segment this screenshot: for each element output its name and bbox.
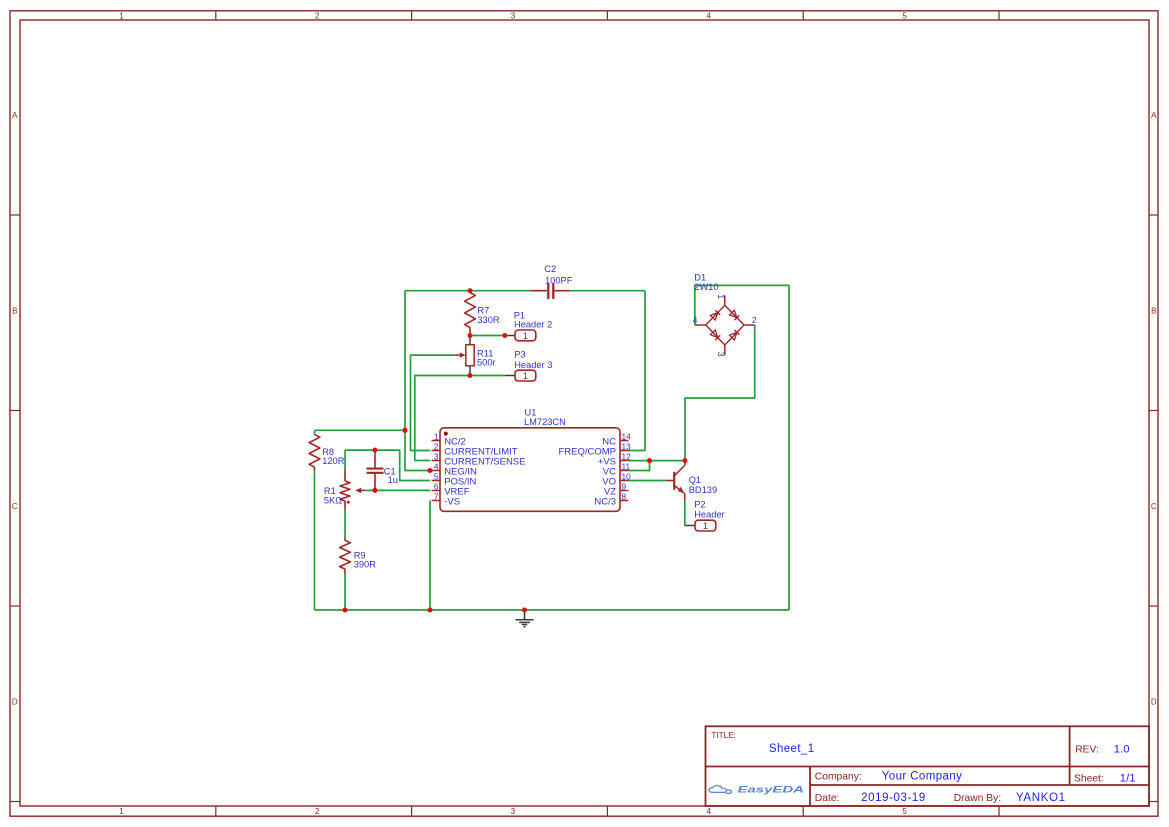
wire R1 top and C1 top to U1 pin 5 POS/IN	[345, 450, 430, 480]
IC U1 LM723CN body	[440, 408, 620, 512]
U1 pin 3 CURRENT/SENSE	[432, 451, 526, 467]
U1 pin 9 VZ	[604, 481, 629, 497]
svg-text:Date:: Date:	[815, 793, 840, 804]
resistor R7 330R	[465, 291, 500, 336]
svg-text:Drawn By:: Drawn By:	[954, 793, 1002, 804]
svg-text:13: 13	[622, 441, 632, 451]
wire U1 pin 13 FREQ/COMP riser	[629, 291, 646, 451]
svg-text:1: 1	[703, 521, 708, 531]
junction at VC riser	[647, 458, 652, 463]
svg-text:Sheet_1: Sheet_1	[769, 743, 815, 755]
resistor R9 390R	[340, 538, 377, 574]
svg-text:3: 3	[716, 352, 726, 357]
svg-text:330R: 330R	[477, 315, 500, 325]
trimmer resistor R11 500r	[456, 336, 496, 376]
svg-text:P3: P3	[514, 350, 525, 360]
svg-text:D1: D1	[694, 273, 706, 283]
svg-text:NC/3: NC/3	[594, 496, 616, 507]
svg-text:1: 1	[119, 807, 124, 816]
header P2 Header	[685, 500, 725, 532]
svg-text:1.0: 1.0	[1114, 744, 1130, 756]
wire left rail below R8	[314, 471, 316, 611]
U1 pin 10 VO	[602, 471, 631, 487]
U1 pin 14 NC	[602, 431, 631, 447]
svg-text:5: 5	[902, 807, 907, 816]
svg-text:Your Company: Your Company	[882, 771, 962, 783]
svg-text:A: A	[1151, 111, 1157, 120]
svg-text:EasyEDA: EasyEDA	[738, 784, 805, 795]
wire R1 wiper to U1 pin 6 VREF	[364, 489, 430, 491]
svg-text:4: 4	[434, 461, 439, 471]
wire U1 pin 12 +VS to collector node	[629, 460, 686, 462]
svg-text:100PF: 100PF	[545, 276, 573, 286]
svg-text:2: 2	[315, 807, 320, 816]
svg-text:C: C	[1151, 502, 1157, 511]
wire top rail right segment	[570, 290, 645, 292]
svg-text:4: 4	[693, 315, 698, 325]
junction at P1 pin	[502, 333, 507, 338]
svg-text:1: 1	[119, 12, 124, 21]
svg-text:120R: 120R	[322, 456, 345, 466]
U1 pin 4 NEG/IN	[432, 461, 478, 477]
wire bottom ground rail	[315, 609, 790, 611]
title block Drawn By	[954, 791, 1066, 804]
svg-text:3: 3	[511, 12, 516, 21]
svg-text:A: A	[12, 111, 18, 120]
svg-text:Q1: Q1	[689, 475, 701, 485]
wire R7 bottom to P1	[470, 335, 505, 337]
svg-text:Header 3: Header 3	[514, 360, 552, 370]
svg-text:12: 12	[622, 451, 632, 461]
wire R1 bottom to R9 top	[344, 510, 346, 539]
wire R11 bottom to P3	[470, 375, 505, 377]
svg-text:BD139: BD139	[689, 485, 717, 495]
svg-text:5: 5	[434, 471, 439, 481]
svg-text:1: 1	[434, 431, 439, 441]
wire Q1 emitter to P2	[684, 501, 686, 526]
svg-text:D: D	[1151, 698, 1157, 707]
svg-text:1: 1	[523, 331, 528, 341]
svg-text:5KΩ: 5KΩ	[324, 495, 342, 505]
U1 pin 13 FREQ/COMP	[558, 441, 631, 457]
wire R11 bottom to U1 pin 3	[415, 376, 470, 461]
svg-text:5: 5	[902, 12, 907, 21]
svg-text:2019-03-19: 2019-03-19	[861, 792, 926, 804]
title block Date	[815, 792, 926, 804]
svg-text:2: 2	[315, 12, 320, 21]
svg-text:1/1: 1/1	[1120, 773, 1136, 785]
junction at -VS rail	[428, 608, 433, 613]
svg-text:1: 1	[523, 371, 528, 381]
diode bridge D1 2W10	[693, 273, 757, 357]
svg-text:Header: Header	[694, 510, 725, 520]
svg-text:6: 6	[434, 481, 439, 491]
U1 pin 5 POS/IN	[432, 471, 477, 487]
junction at Q1 collector	[683, 458, 688, 463]
svg-text:14: 14	[622, 431, 632, 441]
capacitor C1 1u	[367, 450, 398, 490]
svg-text:7: 7	[434, 491, 439, 501]
title block	[706, 726, 1150, 806]
U1 pin 11 VC	[603, 461, 631, 477]
wire U1 pin 11 VC up to +VS net	[629, 461, 650, 471]
title block sheet name	[769, 743, 815, 755]
U1 pin 8 NC/3	[594, 491, 628, 507]
wire U1 pin 10 VO to Q1 base	[629, 480, 667, 482]
U1 pin 7 -VS	[432, 491, 461, 507]
resistor R8 120R	[309, 435, 345, 471]
svg-text:3: 3	[511, 807, 516, 816]
EasyEDA logo	[709, 784, 804, 795]
svg-text:REV:: REV:	[1075, 745, 1099, 756]
svg-text:9: 9	[622, 481, 627, 491]
svg-text:2: 2	[434, 441, 439, 451]
wire R11 wiper to U1 pin 2	[411, 355, 457, 450]
junction at ground rail	[522, 608, 527, 613]
wire left riser to U1 pin 4 NEG/IN	[405, 291, 430, 471]
svg-text:1: 1	[716, 294, 726, 299]
svg-text:YANKO1: YANKO1	[1016, 791, 1066, 804]
wire D1 pin 2 down to +VS net	[685, 325, 755, 461]
svg-text:10: 10	[622, 471, 632, 481]
title block REV	[1075, 744, 1129, 756]
U1 pin 6 VREF	[432, 481, 470, 497]
svg-text:2: 2	[752, 315, 757, 325]
header P3 Header 3	[505, 350, 553, 382]
junction at C1 bottom	[373, 488, 378, 493]
U1 pin 12 +VS	[598, 451, 631, 467]
svg-text:3: 3	[434, 451, 439, 461]
wire top rail left segment	[405, 290, 530, 292]
wire right rail up over to D1 pin 4	[695, 285, 789, 610]
junction at R9 bottom rail	[343, 608, 348, 613]
title block Sheet	[1074, 773, 1136, 785]
wire R1 top stub	[344, 450, 346, 469]
svg-text:C2: C2	[544, 264, 556, 274]
wire U1 pin 7 -VS to ground rail	[429, 501, 431, 611]
svg-text:C: C	[12, 502, 18, 511]
svg-text:Company:: Company:	[815, 772, 862, 783]
U1 pin 1 NC/2	[432, 431, 466, 447]
title block Company	[815, 771, 962, 783]
svg-text:11: 11	[622, 461, 631, 471]
svg-text:TITLE:: TITLE:	[711, 731, 736, 740]
transistor Q1 BD139	[666, 462, 717, 501]
svg-text:-VS: -VS	[444, 496, 460, 507]
junction at U1 pin 4	[428, 468, 433, 473]
svg-text:P2: P2	[694, 500, 705, 510]
svg-text:LM723CN: LM723CN	[524, 417, 566, 427]
junction at R7 top	[468, 288, 473, 293]
junction at R7 bottom / R11 top	[468, 333, 473, 338]
junction at riser / R8 top	[403, 428, 408, 433]
junction at C1 top	[373, 448, 378, 453]
ground symbol	[516, 611, 534, 627]
svg-text:8: 8	[622, 491, 627, 501]
svg-text:Header 2: Header 2	[514, 320, 552, 330]
svg-text:B: B	[1151, 307, 1156, 316]
svg-text:D: D	[12, 698, 18, 707]
svg-text:Sheet:: Sheet:	[1074, 774, 1104, 785]
capacitor C2 100PF	[530, 264, 573, 299]
header P1 Header 2	[505, 311, 552, 341]
wire R8 top stub	[314, 430, 316, 434]
svg-text:4: 4	[707, 807, 712, 816]
svg-text:2W10: 2W10	[694, 282, 718, 292]
svg-text:1u: 1u	[388, 475, 398, 485]
svg-text:390R: 390R	[354, 560, 377, 570]
U1 pin 2 CURRENT/LIMIT	[432, 441, 518, 457]
title block TITLE label	[711, 731, 736, 740]
junction at R11 bottom	[468, 373, 473, 378]
wire R8 top to riser	[315, 429, 406, 431]
svg-text:4: 4	[707, 12, 712, 21]
svg-text:500r: 500r	[477, 357, 496, 367]
wire R9 bottom to ground rail	[344, 574, 346, 610]
potentiometer R1 5K	[324, 470, 365, 510]
svg-text:B: B	[12, 307, 17, 316]
